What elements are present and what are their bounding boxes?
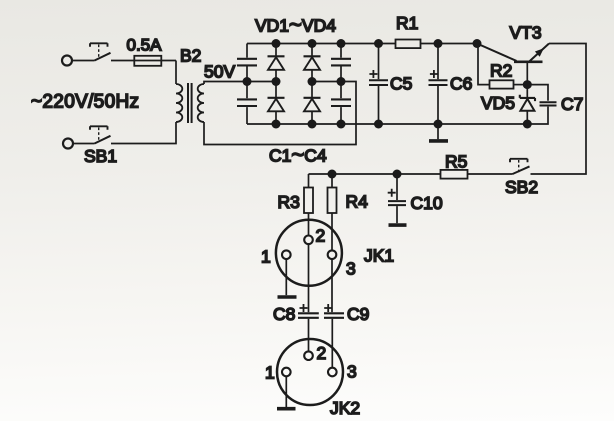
ground under C10 xyxy=(389,223,407,227)
transformer B2 xyxy=(176,83,204,123)
junction top rail R2/collector xyxy=(473,39,482,48)
svg-text:JK1: JK1 xyxy=(364,246,394,266)
svg-text:R4: R4 xyxy=(346,192,369,212)
wire JK1 pin1 to ground xyxy=(285,259,287,295)
wire primary bottom xyxy=(111,122,176,144)
svg-text:3: 3 xyxy=(346,259,356,279)
svg-text:VD5: VD5 xyxy=(481,93,515,113)
diode VD4 (bridge col3 bottom) xyxy=(304,82,321,125)
svg-text:VT3: VT3 xyxy=(510,23,542,43)
svg-text:JK2: JK2 xyxy=(330,398,360,418)
wire xyxy=(73,143,94,145)
terminal input top xyxy=(62,56,72,66)
diode VD1 (bridge col2 top) xyxy=(268,44,285,82)
svg-text:SB2: SB2 xyxy=(505,177,538,197)
svg-text:C7: C7 xyxy=(561,94,583,114)
svg-text:VD1~VD4: VD1~VD4 xyxy=(255,12,336,37)
zener diode VD5 xyxy=(520,85,535,124)
svg-text:C5: C5 xyxy=(390,74,412,94)
junction VT3 base node xyxy=(523,80,532,89)
capacitor C4 (bridge col4 bottom) xyxy=(331,82,351,125)
junction mid rail col2 xyxy=(272,77,281,86)
junction VD5 bottom node xyxy=(523,120,532,129)
switch SB1 lower pole xyxy=(90,126,111,143)
junction bottom rail C6 xyxy=(434,120,443,129)
junction bottom rail col4 xyxy=(337,120,346,129)
resistor R3 xyxy=(304,174,313,236)
junction dots xyxy=(243,39,532,179)
wire R5 rail xyxy=(309,173,513,175)
capacitor C9 xyxy=(324,304,344,368)
junction bottom rail C5 xyxy=(374,120,383,129)
wire secondary top to bridge middle-left xyxy=(204,82,276,85)
svg-text:C9: C9 xyxy=(347,304,369,324)
capacitor C1 (bridge col1 top) xyxy=(237,44,257,82)
JK1 pin 1 xyxy=(282,250,291,259)
svg-text:R5: R5 xyxy=(445,152,467,172)
svg-text:~220V/50Hz: ~220V/50Hz xyxy=(31,92,139,113)
junction mid rail col1 xyxy=(243,77,252,86)
switch SB1 upper pole xyxy=(90,43,111,60)
svg-text:R2: R2 xyxy=(490,61,512,81)
wire xyxy=(72,60,94,62)
svg-text:2: 2 xyxy=(317,343,327,363)
JK2 pin 1 xyxy=(282,368,291,377)
svg-text:C6: C6 xyxy=(450,74,472,94)
wire JK2 pin1 to ground xyxy=(285,376,287,407)
capacitor C3 (bridge col4 top) xyxy=(331,44,351,82)
ground JK2 pin1 xyxy=(277,407,296,411)
svg-text:1: 1 xyxy=(265,363,275,383)
diode VD2 (bridge col2 bottom) xyxy=(268,82,285,125)
wire secondary bottom return loop xyxy=(204,82,356,145)
junction top rail C5 xyxy=(374,39,383,48)
svg-text:2: 2 xyxy=(316,226,326,246)
svg-text:C1~C4: C1~C4 xyxy=(269,142,327,167)
junction R5 rail C10 xyxy=(393,170,402,179)
junction mid rail col3 xyxy=(308,77,317,86)
connector JK1 xyxy=(276,220,342,286)
capacitor C6 xyxy=(429,44,448,125)
wire top rail xyxy=(247,43,477,45)
resistor R2 xyxy=(478,44,527,89)
resistor R5 xyxy=(441,170,468,179)
capacitor C8 xyxy=(298,304,319,351)
junction mid rail col4 xyxy=(337,77,346,86)
junction bottom rail col2 xyxy=(272,120,281,129)
svg-text:R1: R1 xyxy=(396,13,418,33)
svg-text:B2: B2 xyxy=(180,46,201,66)
wire JK1 pin3 to C9 xyxy=(331,259,333,312)
junction top rail col3 xyxy=(308,39,317,48)
switch SB2 xyxy=(510,159,530,174)
junction bottom rail col3 xyxy=(308,120,317,129)
resistor R4 xyxy=(328,174,337,250)
junction top rail col2 xyxy=(272,39,281,48)
svg-text:C8: C8 xyxy=(273,304,295,324)
wire primary top xyxy=(175,61,177,85)
capacitor C10 xyxy=(388,174,406,223)
svg-text:3: 3 xyxy=(347,362,357,382)
capacitor C7 xyxy=(527,85,556,124)
capacitor C5 xyxy=(369,44,388,125)
wire emitter to right rail and down to SB2 xyxy=(531,44,587,175)
diode VD3 (bridge col3 top) xyxy=(304,44,321,82)
junction top rail C6 xyxy=(434,39,443,48)
JK1 pin 2 xyxy=(304,236,313,245)
wire JK1 pin2 to C8 xyxy=(308,244,310,312)
connector JK2 xyxy=(277,339,343,405)
JK2 pin 3 xyxy=(328,368,337,377)
fuse FU 0.5A xyxy=(134,56,161,66)
ground JK1 pin1 xyxy=(278,295,297,299)
ground under C6 xyxy=(429,124,448,141)
terminal input bottom xyxy=(63,139,73,149)
JK2 pin 2 xyxy=(304,351,313,360)
junction R5 rail R4 xyxy=(328,170,337,179)
resistor R1 xyxy=(396,40,421,49)
wire bottom rail xyxy=(247,123,527,125)
svg-text:1: 1 xyxy=(261,247,271,267)
svg-text:SB1: SB1 xyxy=(84,146,117,166)
wire xyxy=(111,60,176,62)
svg-text:50V: 50V xyxy=(204,62,235,82)
svg-text:C10: C10 xyxy=(411,193,443,213)
capacitor C2 (bridge col1 bottom) xyxy=(237,82,257,125)
svg-text:0.5A: 0.5A xyxy=(127,36,163,55)
transistor VT3 xyxy=(477,44,549,85)
junction top rail col4 xyxy=(337,39,346,48)
JK1 pin 3 xyxy=(328,250,337,259)
svg-text:R3: R3 xyxy=(278,192,300,212)
